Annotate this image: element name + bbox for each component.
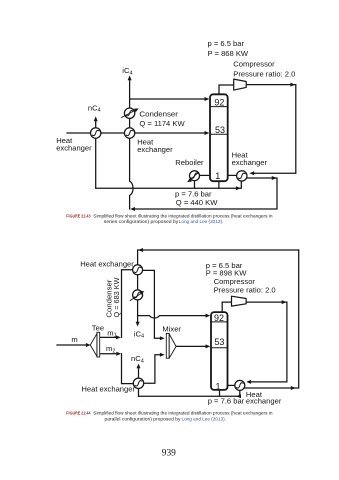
wire reflux line fig1 <box>130 98 205 100</box>
mixer fig2 <box>166 333 176 358</box>
svg-text:Simplified flow sheet illustra: Simplified flow sheet illustrating the i… <box>93 214 273 219</box>
svg-text:53: 53 <box>215 125 225 135</box>
wire main condensate vertical fig2 <box>137 275 139 290</box>
wire column bottom stub fig2 <box>219 390 221 396</box>
svg-text:P = 868 KW: P = 868 KW <box>208 49 249 58</box>
caption figure 22.44 <box>66 411 273 422</box>
svg-text:Heat exchanger: Heat exchanger <box>80 259 134 268</box>
node feed arrow into column (53) <box>205 131 210 135</box>
wire column to HX3 fig1 <box>229 174 237 176</box>
svg-text:92: 92 <box>214 98 224 108</box>
svg-text:1: 1 <box>215 171 220 181</box>
wire column bottom stub fig1 <box>218 181 220 188</box>
compressor K2 fig2 <box>232 296 247 306</box>
column C2 fig2 <box>211 312 228 390</box>
caption figure 22.43 <box>66 214 273 225</box>
wire HX2' outlet to mixer bottom fig2 <box>144 355 161 384</box>
tray line 53 fig2 <box>212 347 227 349</box>
wire HX1' outlet to mixer top fig2 <box>143 270 161 338</box>
svg-text:Long and Lee (2013).: Long and Lee (2013). <box>179 219 224 224</box>
compressor K1 fig1 <box>234 79 247 90</box>
column C1 fig1 <box>210 94 228 181</box>
svg-text:nC4: nC4 <box>131 354 144 364</box>
svg-text:Pressure ratio: 2.0: Pressure ratio: 2.0 <box>214 286 276 295</box>
wire compressor discharge fig1 <box>246 85 296 174</box>
svg-text:exchanger: exchanger <box>137 145 173 154</box>
svg-text:series configuration) proposed: series configuration) proposed by <box>104 219 179 224</box>
condenser fig1 <box>122 108 139 118</box>
wire iC4 product arrow down fig2 <box>136 322 140 327</box>
wire bottoms: HX1 downcomer + header + riser to HX3 <box>96 138 242 188</box>
svg-text:92: 92 <box>214 313 224 323</box>
wire bottoms header fig2 <box>139 395 240 397</box>
svg-text:exchanger: exchanger <box>232 158 268 167</box>
svg-text:FIGURE 22.44: FIGURE 22.44 <box>66 411 91 416</box>
wire m1 branch fig2 <box>100 336 117 338</box>
svg-text:Compressor: Compressor <box>233 59 275 68</box>
heat exchanger HX3 fig1 <box>237 171 247 181</box>
svg-text:Reboiler: Reboiler <box>175 158 204 167</box>
wire compressor discharge fig2 <box>246 302 287 382</box>
svg-text:Heat exchanger: Heat exchanger <box>81 384 135 393</box>
wire nC4 product arrow fig1 <box>95 121 97 128</box>
svg-text:m: m <box>71 335 77 344</box>
svg-text:p = 6.5 bar: p = 6.5 bar <box>208 39 245 48</box>
wire nC4 product arrow fig2 <box>138 368 140 378</box>
svg-text:53: 53 <box>214 337 224 347</box>
condenser fig2 <box>130 290 144 301</box>
wire condensate riser fig1 (with hop over bottoms header) <box>130 80 133 209</box>
reboiler fig1 <box>187 171 199 182</box>
node reflux/product junction arrow into column (92) <box>205 97 210 101</box>
svg-text:nC4: nC4 <box>88 103 101 113</box>
svg-text:1: 1 <box>215 381 220 391</box>
wire HX2' bottom riser fig2 <box>138 389 140 397</box>
svg-text:Long and Lee (2013).: Long and Lee (2013). <box>182 416 227 421</box>
svg-text:Q = 440 KW: Q = 440 KW <box>176 198 218 207</box>
wire column top riser to compressor fig2 <box>222 302 231 312</box>
tray line 92 fig2 <box>212 321 227 323</box>
svg-text:iC4: iC4 <box>134 329 144 339</box>
wire column top riser to compressor fig1 <box>219 85 234 94</box>
wire top return line fig2 <box>138 250 299 265</box>
svg-text:exchanger: exchanger <box>56 143 92 152</box>
tray line 92 fig1 <box>211 106 228 108</box>
heat exchanger HX1 fig1 <box>91 128 101 138</box>
svg-text:FIGURE 22.43: FIGURE 22.43 <box>66 214 91 219</box>
tray line 53 fig1 <box>211 133 228 135</box>
tee splitter fig2 <box>90 332 99 357</box>
wire HX condensate out to outer riser fig2 <box>245 250 299 388</box>
heat exchanger HX1' fig2 <box>133 265 143 275</box>
heat exchanger HX2 fig1 <box>124 128 134 138</box>
wire m2 branch fig2 <box>100 353 117 355</box>
svg-text:Q = 683 KW: Q = 683 KW <box>112 277 121 318</box>
svg-text:iC4: iC4 <box>122 66 132 76</box>
svg-text:Simplified flow sheet illustra: Simplified flow sheet illustrating the i… <box>93 411 273 416</box>
wire iC4 product arrow <box>128 75 132 80</box>
heat exchanger right fig2 <box>235 380 245 390</box>
node header arrow into HX3 riser <box>236 186 241 190</box>
wire reboiler to column fig1 <box>200 174 210 176</box>
svg-text:Mixer: Mixer <box>162 324 181 333</box>
svg-text:Q = 1174 KW: Q = 1174 KW <box>139 119 185 128</box>
wire mixer outlet / feed into column fig2 <box>176 345 206 347</box>
wire column to right HX fig2 <box>228 384 235 386</box>
wire reflux line fig2 (hop over mixer-top line) <box>138 316 206 318</box>
svg-text:p = 7.6 bar: p = 7.6 bar <box>208 396 245 405</box>
svg-text:939: 939 <box>162 449 176 459</box>
svg-text:m1: m1 <box>107 328 116 338</box>
wire right HX bottom riser fig2 <box>239 390 241 396</box>
svg-text:Tee: Tee <box>92 324 104 333</box>
svg-text:Condenser: Condenser <box>139 109 178 118</box>
svg-text:Pressure ratio: 2.0: Pressure ratio: 2.0 <box>233 70 295 79</box>
wire feed line fig1 <box>67 132 205 134</box>
svg-text:exchanger: exchanger <box>246 397 282 406</box>
wire m feed inlet fig2 <box>57 344 86 346</box>
heat exchanger HX2' fig2 <box>133 378 143 388</box>
wire reboiler riser fig1 <box>194 181 196 189</box>
svg-text:P = 898 KW: P = 898 KW <box>206 269 247 278</box>
svg-text:m2: m2 <box>106 344 115 354</box>
svg-text:parallel configuration) propos: parallel configuration) proposed by <box>105 416 182 421</box>
wire HX3 condensate out fig1 <box>135 178 277 209</box>
